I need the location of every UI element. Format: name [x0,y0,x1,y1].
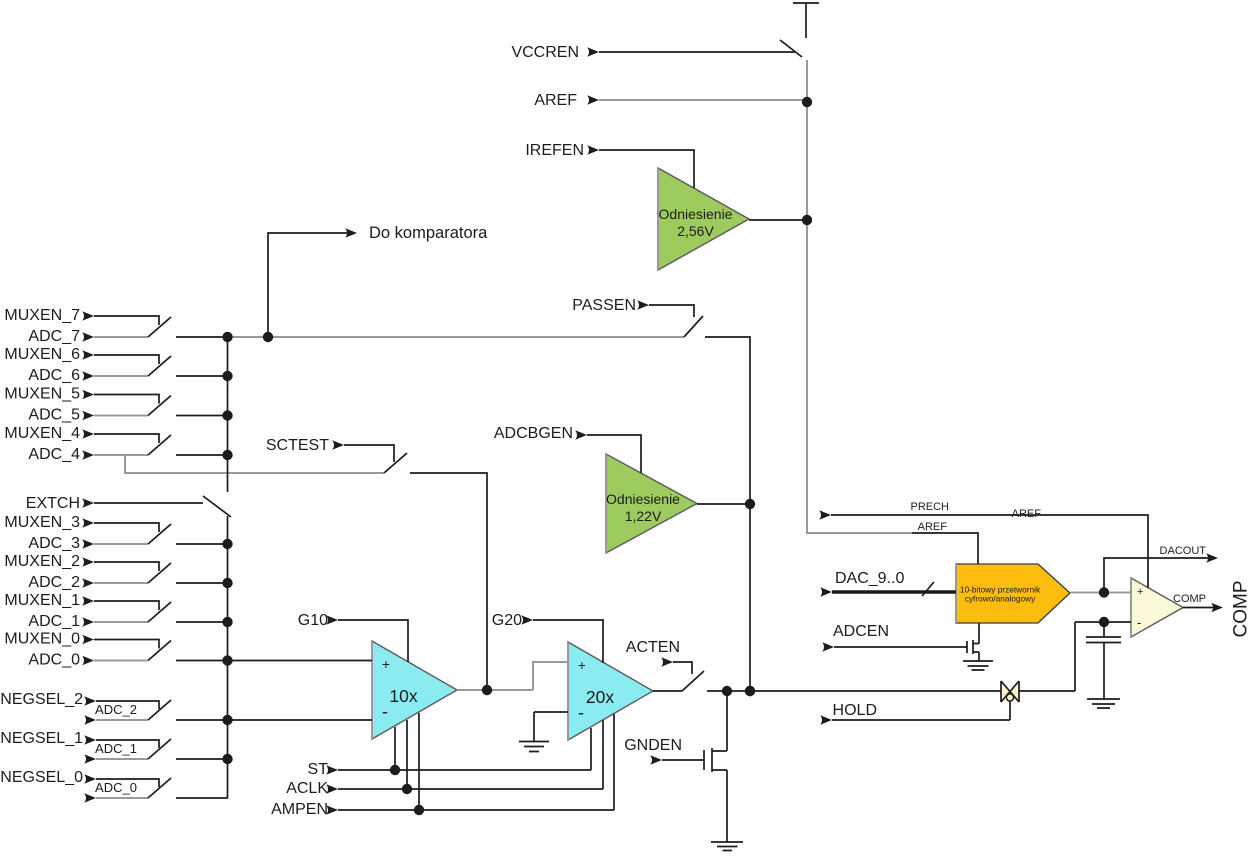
svg-text:Odniesienie: Odniesienie [659,206,733,222]
svg-text:NEGSEL_0: NEGSEL_0 [0,769,83,786]
svg-text:+: + [1137,586,1143,598]
svg-text:AREF: AREF [534,92,577,109]
svg-text:ACLK: ACLK [286,780,328,797]
svg-text:G10: G10 [298,612,328,629]
svg-text:ADC_0: ADC_0 [95,780,137,795]
svg-text:COMP: COMP [1173,593,1206,605]
svg-text:MUXEN_5: MUXEN_5 [4,386,80,403]
svg-text:2,56V: 2,56V [677,223,714,239]
svg-text:MUXEN_7: MUXEN_7 [4,307,80,324]
svg-text:COMP: COMP [1231,581,1249,638]
svg-text:DACOUT: DACOUT [1160,545,1207,557]
svg-text:AREF: AREF [918,521,948,533]
svg-text:GNDEN: GNDEN [624,737,682,754]
svg-text:EXTCH: EXTCH [26,495,80,512]
svg-text:AREF: AREF [1012,508,1042,520]
svg-text:ADC_6: ADC_6 [28,367,80,384]
svg-text:ADC_1: ADC_1 [95,741,137,756]
svg-text:PASSEN: PASSEN [572,297,636,314]
svg-text:ADCBGEN: ADCBGEN [494,425,573,442]
svg-text:cyfrowo/analogowy: cyfrowo/analogowy [965,594,1036,604]
svg-text:ADC_5: ADC_5 [28,407,80,424]
svg-text:NEGSEL_2: NEGSEL_2 [0,691,83,708]
svg-text:HOLD: HOLD [833,702,877,719]
svg-text:+: + [382,657,390,672]
svg-text:-: - [382,702,388,722]
svg-text:1,22V: 1,22V [625,508,662,524]
svg-text:10x: 10x [389,686,417,706]
svg-text:ST: ST [308,761,329,778]
svg-text:NEGSEL_1: NEGSEL_1 [0,730,83,747]
svg-text:-: - [578,703,584,723]
svg-text:MUXEN_6: MUXEN_6 [4,346,80,363]
svg-text:ADCEN: ADCEN [833,623,889,640]
svg-text:MUXEN_3: MUXEN_3 [4,514,80,531]
svg-text:IREFEN: IREFEN [525,142,584,159]
svg-text:DAC_9..0: DAC_9..0 [835,570,904,587]
svg-text:ADC_1: ADC_1 [28,613,80,630]
svg-text:SCTEST: SCTEST [266,437,329,454]
svg-text:-: - [1137,615,1141,630]
svg-text:ADC_2: ADC_2 [28,574,80,591]
svg-text:ADC_7: ADC_7 [28,328,80,345]
svg-text:MUXEN_2: MUXEN_2 [4,553,80,570]
svg-text:MUXEN_4: MUXEN_4 [4,425,80,442]
svg-text:VCCREN: VCCREN [511,44,579,61]
svg-text:Odniesienie: Odniesienie [606,491,680,507]
svg-text:ADC_4: ADC_4 [28,446,80,463]
svg-text:PRECH: PRECH [910,501,949,513]
svg-text:+: + [578,658,586,673]
svg-text:Do komparatora: Do komparatora [369,224,488,242]
svg-text:ACTEN: ACTEN [626,639,680,656]
svg-text:MUXEN_1: MUXEN_1 [4,592,80,609]
svg-text:AMPEN: AMPEN [271,801,328,818]
svg-text:G20: G20 [492,612,522,629]
svg-text:20x: 20x [586,687,614,707]
svg-text:ADC_3: ADC_3 [28,535,80,552]
svg-text:MUXEN_0: MUXEN_0 [4,631,80,648]
svg-text:ADC_2: ADC_2 [95,702,137,717]
svg-text:ADC_0: ADC_0 [28,652,80,669]
